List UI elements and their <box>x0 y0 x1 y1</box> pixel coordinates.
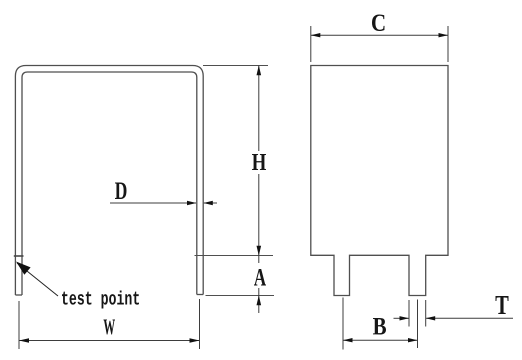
dimension H: vertical dimension line with arrows <box>257 65 262 263</box>
top edge extension line (H top) <box>203 65 268 67</box>
dimension B: extension lines, dimension line, arrows <box>343 298 418 350</box>
tick mark on left lead <box>14 255 24 257</box>
dimension C: extension lines, dimension line, arrows <box>311 26 448 62</box>
dimension D: horizontal line with converging arrows on lead <box>110 201 217 205</box>
dimension W: extension lines and dimension line <box>19 299 200 349</box>
tick mark on right lead + extension line (H/A boundary) <box>195 255 274 257</box>
extension line at lead tips (A bottom) <box>206 295 275 297</box>
component outline: wire loop side view (outer contour) <box>15 66 203 296</box>
label test point <box>62 290 139 308</box>
label A <box>254 269 266 285</box>
component outline: body front view with two leads <box>311 66 448 296</box>
label B <box>373 318 386 335</box>
label C <box>372 15 384 31</box>
dimension T: extension lines below right lead, converging arrows <box>394 300 514 327</box>
label T <box>495 296 508 314</box>
leader arrow: test point <box>16 262 58 297</box>
dimension A: arrows outside pointing at span <box>257 288 262 313</box>
label D <box>115 182 126 199</box>
label W <box>103 320 115 335</box>
label H <box>252 154 266 170</box>
